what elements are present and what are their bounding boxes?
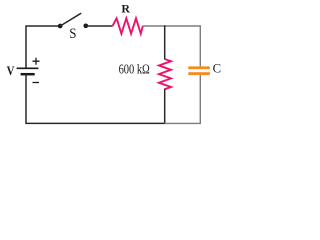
- wire: resistor R to top-right corner, down to capacitor (gray branch): [143, 26, 201, 66]
- battery - sign: [33, 82, 40, 84]
- battery V bottom plate (-): [21, 73, 35, 76]
- capacitor C top plate: [188, 66, 210, 69]
- wire: capacitor bottom to bottom-right corner and left to junction: [165, 75, 201, 123]
- svg-text:V: V: [7, 64, 15, 78]
- svg-text:S: S: [69, 26, 76, 42]
- capacitor C bottom plate: [188, 72, 210, 75]
- switch S blade (open): [60, 13, 81, 26]
- wire: 600k branch vertical upper: [164, 25, 166, 59]
- resistor R zigzag: [113, 18, 143, 33]
- wire: battery down to bottom-left corner and bottom wire to 600k junction: [26, 74, 165, 123]
- battery V top plate (+): [17, 67, 39, 69]
- wire: top-left from battery up and right to switch: [26, 26, 58, 68]
- svg-text:C: C: [213, 62, 221, 76]
- switch S left contact dot: [58, 24, 63, 29]
- wire: 600k branch vertical lower: [164, 89, 166, 124]
- wire: switch right dot to resistor R: [86, 25, 113, 27]
- svg-text:600 kΩ: 600 kΩ: [119, 62, 150, 77]
- switch S right contact dot: [83, 23, 88, 28]
- battery + sign: [33, 58, 40, 65]
- svg-text:R: R: [121, 2, 130, 16]
- resistor 600k zigzag (vertical): [159, 59, 171, 89]
